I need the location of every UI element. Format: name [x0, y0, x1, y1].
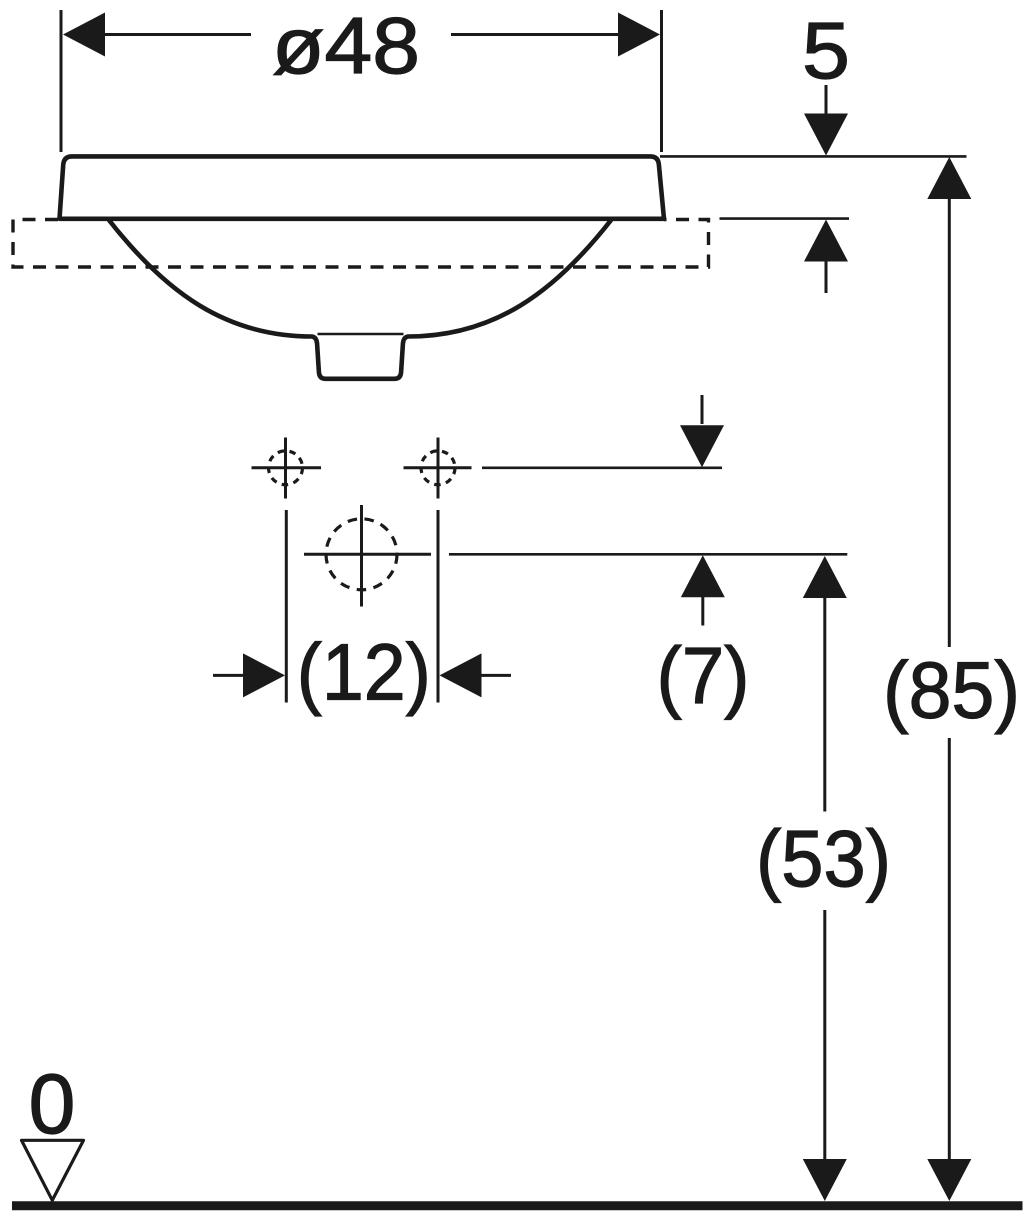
dimension ø48 extension line left	[60, 10, 63, 152]
dimension label (7)	[657, 631, 750, 720]
dimension 5 lower stem	[825, 261, 828, 293]
dimension 12 right stem	[481, 674, 511, 677]
dimension ø48 arrow left	[63, 13, 105, 57]
tap hole circle 1 (dashed)	[269, 451, 303, 485]
svg-text:5: 5	[802, 6, 850, 95]
dimension ø48 line right segment	[451, 33, 619, 36]
floor line	[12, 1201, 1023, 1210]
central hole crosshair horizontal	[304, 553, 431, 556]
tap hole circle 2 (dashed)	[421, 451, 455, 485]
svg-text:(85): (85)	[883, 646, 1020, 735]
dimension 85 up-arrow	[927, 157, 971, 199]
basin rim	[60, 156, 665, 218]
dimension label (12)	[297, 628, 431, 717]
dimension label (53)	[756, 814, 891, 903]
tap hole 2 crosshair horizontal	[404, 466, 472, 469]
dimension 7 stem	[701, 597, 704, 626]
tap hole height reference line	[482, 466, 722, 469]
dimension 5 upper stem	[825, 85, 828, 117]
dimension 85 lower stem	[948, 738, 951, 1161]
dimension 53 up-arrow	[803, 556, 847, 598]
dimension 5 label	[802, 6, 850, 95]
dimension 53 down-arrow	[803, 1159, 847, 1201]
svg-text:0: 0	[29, 1057, 76, 1151]
dimension 12 left stem	[213, 674, 243, 677]
datum label 0	[29, 1057, 76, 1151]
tap hole line down-arrow	[680, 425, 724, 467]
dimension 5 lower arrow (up)	[804, 220, 848, 262]
dimension ø48 extension line right	[660, 10, 663, 152]
dimension label (85)	[883, 646, 1020, 735]
svg-text:(7): (7)	[657, 631, 750, 720]
drain top thin line	[318, 333, 404, 335]
dimension 53 lower stem	[823, 910, 826, 1161]
dimension 85 upper stem	[948, 199, 951, 648]
dimension 5 upper arrow (down)	[804, 114, 848, 156]
reference line rim top	[660, 155, 967, 158]
dimension 12 right arrow (left-pointing)	[440, 653, 482, 697]
countertop dashed box	[13, 220, 709, 268]
dimension 7 up-arrow	[681, 555, 725, 597]
basin bowl	[109, 220, 612, 379]
tap hole line down-arrow stem	[701, 395, 704, 424]
tap hole 1 crosshair vertical	[284, 438, 287, 499]
reference line countertop top	[720, 217, 850, 220]
dimension ø48 arrow right	[618, 13, 660, 57]
svg-text:(53): (53)	[756, 814, 891, 903]
dimension 12 left arrow (right-pointing)	[243, 653, 285, 697]
central hole circle (dashed)	[326, 519, 397, 590]
tap hole 2 crosshair vertical	[437, 438, 440, 499]
dimension 53 upper stem	[823, 598, 826, 812]
dimension 85 down-arrow	[927, 1159, 971, 1201]
central hole crosshair vertical	[360, 505, 363, 607]
dimension ø48 line left segment	[104, 33, 251, 36]
tap hole 1 crosshair horizontal	[252, 466, 322, 469]
datum triangle	[22, 1140, 84, 1200]
tap hole 1 extension line	[285, 510, 288, 703]
svg-text:(12): (12)	[297, 628, 431, 717]
svg-text:ø48: ø48	[272, 1, 420, 90]
central hole height reference line	[449, 553, 847, 556]
dimension label ø48	[272, 1, 420, 90]
tap hole 2 extension line	[437, 510, 440, 703]
